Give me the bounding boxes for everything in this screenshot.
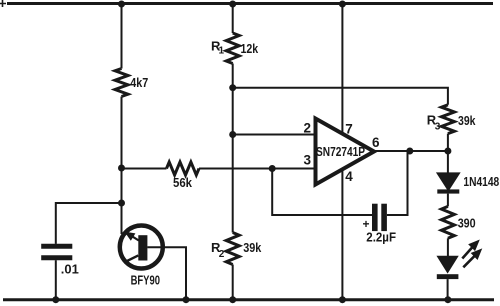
svg-text:1: 1 (219, 46, 225, 57)
svg-text:39k: 39k (458, 113, 476, 128)
capacitor C2 2.2uF right plate (381, 204, 387, 231)
wire: pin3 wire left of 56k (122, 168, 167, 170)
resistor R3 39k (441, 105, 454, 134)
wire: 56k to op-amp pin 3 (199, 168, 316, 170)
wire: 4k7 to 56k node (121, 97, 123, 169)
wire: R3 tap node to pin2 node (232, 88, 234, 135)
wire: 56k node down to left node (121, 168, 123, 203)
transistor Q1 collector line with arrow (126, 232, 139, 240)
junction dot: pin 2 node (229, 131, 236, 138)
wire: top rail to R 4k7 (121, 4, 123, 69)
junction dot: pin 3 node (269, 165, 276, 172)
transistor Q1 emitter line (124, 255, 139, 262)
wire: op-amp pin 7 from top rail (341, 4, 343, 135)
+ supply terminal (0, 0, 6, 7)
wire: left node to capacitor .01 (56, 203, 122, 244)
resistor 56k (167, 162, 200, 175)
top supply rail wire (7, 2, 493, 5)
wire: D1 to resistor 390 (447, 194, 449, 207)
junction dot: top rail / pin 7 (339, 1, 346, 8)
wire: op-amp pin 4 to bottom rail (341, 170, 343, 300)
wire: pin2 wire (233, 134, 316, 136)
svg-text:56k: 56k (173, 175, 193, 190)
resistor 4k7 (115, 69, 128, 97)
capacitor C1 .01 top plate (41, 244, 72, 249)
svg-text:2: 2 (219, 249, 225, 260)
op-amp U1 triangle (316, 119, 375, 185)
junction dot: bottom rail / R2 (229, 296, 236, 303)
LED D2 cathode bar (437, 274, 459, 279)
wire: top rail to R1 (232, 4, 234, 34)
svg-text:3: 3 (304, 152, 312, 167)
svg-text:SN72741P: SN72741P (316, 144, 365, 159)
svg-text:4: 4 (345, 169, 353, 184)
svg-text:.01: .01 (61, 261, 79, 276)
junction dot: 4k7 / 56k node (118, 165, 125, 172)
junction dot: bottom rail / pin 4 (339, 296, 346, 303)
wire: R2 to bottom rail (232, 265, 234, 300)
svg-text:BFY90: BFY90 (131, 272, 160, 287)
svg-text:390: 390 (458, 216, 476, 231)
wire: capacitor .01 to bottom rail (55, 260, 57, 300)
junction dot: output / C2 branch (406, 148, 413, 155)
wire: op-amp output pin 6 (374, 150, 448, 152)
wire: capacitor C2 to output node (387, 151, 408, 215)
svg-text:12k: 12k (241, 41, 259, 56)
bottom rail wire (3, 298, 494, 301)
junction dot: bottom rail / base lead (183, 296, 190, 303)
junction dot: left node to .01 (118, 200, 125, 207)
resistor R1 12k (226, 33, 239, 64)
svg-text:7: 7 (345, 121, 353, 136)
svg-text:6: 6 (372, 135, 380, 150)
svg-text:39k: 39k (243, 240, 262, 255)
junction dot: top rail / 4k7 (118, 1, 125, 8)
LED D2 triangle (438, 257, 458, 273)
wire: R3 to output node (447, 134, 449, 151)
wire: output node to diode D1 (447, 151, 449, 174)
wire: R1 to node at R3 tap (232, 64, 234, 88)
junction dot: R1 bottom / R3 tap (229, 84, 236, 91)
resistor 390 (441, 206, 454, 238)
diode D1 1N4148 triangle (437, 173, 459, 190)
wire: 390 to LED (447, 238, 449, 256)
junction dot: bottom rail / .01 (52, 296, 59, 303)
capacitor C1 .01 bottom plate (41, 255, 72, 260)
wire: pin2 node down to R2 (232, 135, 234, 233)
svg-text:2: 2 (304, 121, 312, 136)
diode D1 cathode bar (437, 189, 459, 193)
junction dot: bottom rail / LED (444, 296, 451, 303)
wire: LED to bottom rail (447, 279, 449, 300)
wire: transistor base to bottom rail (147, 247, 186, 299)
transistor Q1 BFY90 circle (120, 226, 163, 269)
capacitor C2 2.2uF left plate (372, 204, 378, 231)
junction dot: output / R3 / D1 (444, 148, 451, 155)
svg-text:3: 3 (435, 122, 441, 133)
resistor R2 39k (226, 233, 239, 265)
LED emission arrow 2 (463, 253, 477, 267)
LED emission arrow 1 (462, 244, 475, 258)
svg-text:1N4148: 1N4148 (463, 174, 499, 189)
svg-text:2.2µF: 2.2µF (366, 230, 396, 245)
transistor Q1 base bar (138, 235, 147, 260)
svg-text:4k7: 4k7 (130, 75, 148, 90)
wire: left node down to transistor Q1 (121, 203, 123, 234)
wire: tap node to R3 top (233, 88, 448, 105)
junction dot: top rail / R1 (229, 1, 236, 8)
wire: pin3 node down to capacitor C2 (272, 169, 372, 216)
